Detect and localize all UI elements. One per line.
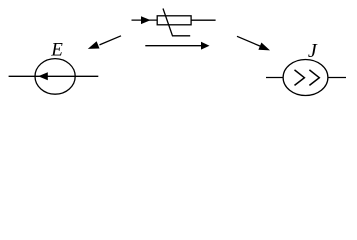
wire xyxy=(132,19,158,21)
left diagonal arrow (to E) xyxy=(88,36,121,49)
wire xyxy=(9,75,99,77)
chevron 1 xyxy=(295,70,305,86)
ellipse xyxy=(35,59,75,95)
resistor R (adjustable, top center) xyxy=(132,9,216,36)
ellipse xyxy=(283,60,328,96)
chevron 2 xyxy=(309,70,319,86)
right diagonal arrow (to J) xyxy=(237,36,270,50)
adjustment diagonal stroke with foot xyxy=(163,9,190,36)
wire xyxy=(328,77,346,79)
resistor body xyxy=(157,16,191,25)
svg-text:E: E xyxy=(50,40,63,61)
voltage source E (ellipse with left arrowhead) xyxy=(9,59,99,95)
arrow (direction arrow under resistor) xyxy=(145,42,209,50)
EMF arrowhead xyxy=(38,72,48,80)
wire xyxy=(191,19,216,21)
current source J (ellipse with double chevron) xyxy=(266,60,346,96)
svg-text:J: J xyxy=(308,40,318,62)
wire xyxy=(266,77,283,79)
current arrowhead on left wire xyxy=(141,16,151,24)
